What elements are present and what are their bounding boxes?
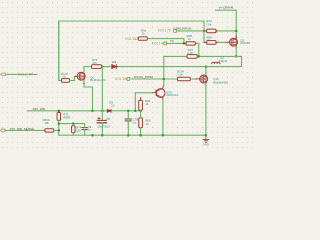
Q1 gate pin	[75, 75, 77, 77]
svg-text:1u: 1u	[133, 120, 137, 124]
svg-text:2N4393: 2N4393	[240, 41, 251, 45]
svg-text:KOL180: KOL180	[115, 77, 128, 81]
svg-text:1PLdC_PWM: 1PLdC_PWM	[134, 75, 153, 79]
wire gate row Q0	[130, 78, 178, 80]
node KOL170 hier label arrow	[173, 29, 176, 32]
capacitor C7 mid	[125, 119, 131, 121]
vertical x204 to R06	[203, 31, 205, 43]
resistor R120	[61, 72, 70, 82]
junction at R04 left	[203, 30, 206, 33]
svg-text:D4: D4	[112, 60, 116, 64]
junction C8 column top	[101, 65, 104, 68]
svg-text:T4: T4	[170, 39, 174, 43]
svg-text:22k: 22k	[76, 129, 81, 133]
wire after R7b	[102, 66, 112, 68]
junction Q0 drain	[205, 65, 208, 68]
svg-text:1k: 1k	[145, 102, 149, 106]
wire R104 to Q0 gate	[190, 78, 196, 80]
junction drain column	[235, 30, 238, 33]
svg-text:KOL168: KOL168	[125, 37, 138, 41]
svg-text:1k: 1k	[146, 122, 150, 126]
wire sense row	[5, 129, 45, 131]
resistor R85 lower divider	[139, 111, 151, 135]
svg-text:IRLML6402: IRLML6402	[213, 81, 228, 85]
wire long vertical mid	[163, 56, 165, 86]
svg-text:2V: 2V	[111, 104, 115, 108]
wire Q5 base row	[135, 93, 153, 111]
transistor Q0	[200, 75, 208, 83]
junction rail divider	[139, 134, 142, 137]
junction rail Q5 emitter	[162, 134, 165, 137]
junction mid2 left	[58, 122, 61, 125]
junction RT1 top	[58, 110, 61, 113]
wire D4 to L2	[119, 66, 211, 68]
svg-text:1n: 1n	[88, 127, 92, 131]
wire KOL1_RF	[7, 73, 38, 75]
junction C7 top	[127, 110, 130, 113]
wire C8 column	[101, 67, 103, 121]
wire top rail	[59, 21, 204, 80]
junction rail C7	[127, 134, 130, 137]
wire C8 bottom	[101, 123, 103, 135]
junction gate row / long vertical	[163, 78, 166, 81]
transistor Q1	[77, 72, 85, 85]
Q2 source pin	[235, 46, 237, 49]
junction 22k top	[72, 122, 75, 125]
wire R9a jog down to R07 row	[197, 43, 199, 56]
svg-text:GND: GND	[203, 142, 209, 146]
svg-text:KOL1_RF: KOL1_RF	[18, 72, 34, 76]
wire mid row	[84, 66, 92, 68]
resistor R6a	[138, 29, 147, 41]
ground	[203, 139, 208, 142]
Q5 collector pin	[162, 86, 164, 88]
junction divider	[139, 110, 142, 113]
wire sense to column	[54, 129, 59, 131]
svg-text:1k: 1k	[142, 31, 146, 35]
junction C8 top	[101, 110, 104, 113]
wire L2 right	[211, 66, 242, 68]
Q0 drain pin	[205, 71, 207, 75]
svg-text:10k: 10k	[44, 121, 49, 125]
wire Q2 source down	[235, 46, 237, 56]
svg-text:BLM41L100: BLM41L100	[90, 78, 106, 82]
svg-text:2N2222A: 2N2222A	[166, 93, 178, 97]
resistor R7b 47k	[92, 58, 102, 68]
wire V+ feed	[216, 10, 237, 38]
wire Q0 source down to GND	[205, 83, 207, 139]
resistor R04	[204, 19, 218, 33]
capacitor C9 small	[82, 128, 87, 130]
svg-text:KOL140: KOL140	[152, 42, 165, 46]
wire Q1 source jog	[84, 80, 93, 110]
Q2 gate pin	[226, 41, 229, 43]
resistor R600	[43, 118, 54, 132]
svg-text:GSW_RFLIN: GSW_RFLIN	[173, 26, 191, 30]
junction rail C8	[101, 134, 104, 137]
resistor R74 22k	[72, 125, 82, 135]
diode D5	[107, 109, 111, 112]
node KOL180 hier label arrow	[126, 78, 129, 81]
svg-text:KOL170: KOL170	[158, 28, 171, 32]
wire KOL140 row	[167, 42, 184, 44]
Q0 source pin	[205, 83, 207, 86]
resistor R104	[177, 70, 190, 81]
wire R06 to Q2 gate	[218, 41, 226, 43]
Q5 emitter pin	[162, 98, 164, 100]
svg-text:1.0k: 1.0k	[206, 22, 212, 26]
diode D4	[112, 65, 119, 69]
resistor R84 upper divider	[139, 98, 151, 111]
wire left rail vertical	[59, 21, 62, 80]
node KOL140 hier label arrow	[163, 42, 166, 45]
svg-text:800R: 800R	[63, 116, 70, 120]
svg-text:1.0k: 1.0k	[177, 73, 183, 77]
wire R120 to Q1 gate	[70, 76, 76, 80]
wire C9 stubs	[84, 124, 86, 128]
junction rail x92.5	[91, 134, 94, 137]
wire R07 row	[164, 55, 187, 57]
Q2 drain pin	[235, 36, 237, 39]
junction rail GND column	[205, 134, 208, 137]
wire RT1 bottom column	[58, 120, 60, 135]
wire GSW_RFLIN	[176, 30, 204, 32]
wire R07 right to corner	[197, 56, 241, 66]
junction KOL140 R6a	[183, 42, 186, 45]
Q1 source pin	[83, 80, 85, 83]
node KOL3 hier label arrow	[1, 129, 6, 132]
inductor L2	[212, 62, 220, 64]
svg-text:C8: C8	[106, 117, 110, 121]
wire Q5 emitter down	[162, 100, 164, 135]
wire 15V_WR row	[27, 110, 140, 112]
junction sense column	[58, 129, 61, 132]
wire Q0 drain up	[205, 67, 207, 75]
svg-text:10uF/50V: 10uF/50V	[97, 124, 110, 128]
node KOL1_RF hier label arrow	[1, 73, 6, 76]
resistor R07	[187, 48, 197, 58]
wire C7 stubs	[127, 111, 129, 119]
junction Q1 source column	[91, 110, 94, 113]
wire R04 to drain column	[218, 30, 236, 32]
resistor R06	[204, 35, 218, 44]
Q1 drain pin	[83, 70, 85, 72]
wire mid2 row	[59, 123, 85, 125]
wire bottom rail	[59, 134, 206, 136]
svg-text:V+ DRAIN: V+ DRAIN	[219, 6, 233, 10]
resistor RT1	[57, 111, 70, 121]
junction Q5 base column	[134, 110, 137, 113]
junction Q2 source row	[235, 55, 238, 58]
transistor Q2	[229, 38, 237, 46]
svg-text:1k: 1k	[188, 37, 192, 41]
resistor R9a	[184, 34, 197, 45]
junction R07 right	[198, 55, 201, 58]
wire Q1 drain up	[83, 67, 85, 72]
Q5 base pin	[153, 92, 156, 94]
capacitor C8	[97, 117, 106, 123]
transistor Q5	[156, 88, 165, 98]
wire R6a row jog down	[147, 39, 184, 44]
Q0 gate pin	[196, 78, 200, 80]
